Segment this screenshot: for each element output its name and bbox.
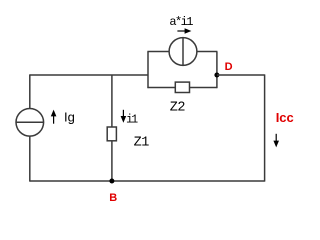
wire top branch left segment (147, 51, 169, 53)
svg-text:Z1: Z1 (134, 136, 150, 151)
wire top horizontal from left corner to parallel box (30, 74, 148, 76)
svg-text:Ig: Ig (64, 109, 75, 124)
wire right vertical (264, 74, 266, 181)
wire middle branch lower (Z1 to node B) (111, 141, 113, 181)
impedance Z2 (175, 82, 189, 92)
svg-text:Z2: Z2 (170, 100, 186, 115)
Icc current arrow (down) (273, 134, 279, 148)
node D junction dot (214, 73, 219, 78)
wire left vertical lower (Ig bottom to bottom wire) (29, 136, 31, 182)
parallel box right vertical (216, 52, 218, 89)
a*i1 reference arrow (right) (177, 28, 191, 34)
parallel box left vertical (147, 52, 149, 89)
wire middle branch upper (top wire to Z1) (111, 75, 113, 127)
Ig reference arrow (up) (51, 110, 57, 124)
impedance Z1 (107, 127, 116, 141)
svg-text:B: B (109, 192, 117, 204)
wire bottom branch left segment (147, 87, 175, 89)
node B junction dot (109, 179, 114, 184)
svg-text:D: D (225, 61, 233, 73)
svg-text:Icc: Icc (276, 110, 294, 125)
current source Ig (16, 109, 44, 137)
svg-text:a*i1: a*i1 (169, 15, 193, 29)
svg-text:i1: i1 (126, 114, 138, 127)
dependent current source a*i1 (169, 38, 197, 66)
wire bottom branch right segment (190, 87, 218, 89)
wire from node D to right corner (217, 74, 265, 76)
wire bottom horizontal (30, 180, 265, 182)
wire left vertical upper (corner to Ig top) (29, 74, 31, 108)
i1 current arrow (down) (121, 110, 127, 123)
wire top branch right segment (197, 51, 218, 53)
